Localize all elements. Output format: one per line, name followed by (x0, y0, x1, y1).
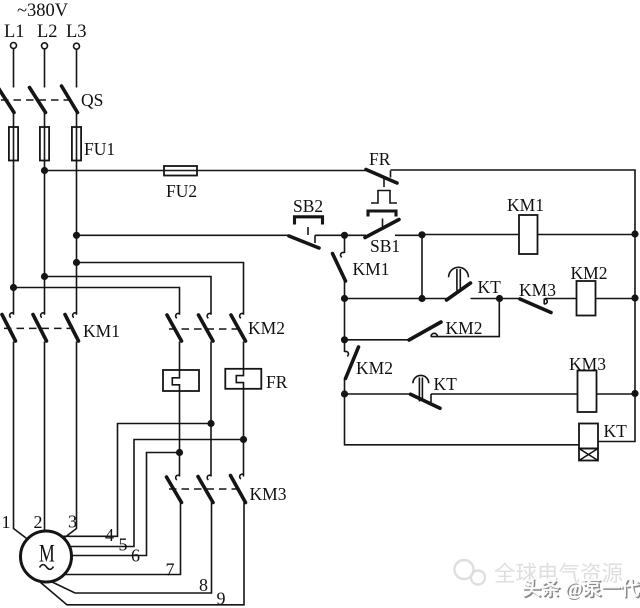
wire feed L2 to KM2 pole 2 (45, 277, 212, 315)
svg-text:KM2: KM2 (248, 318, 285, 338)
svg-text:3: 3 (68, 512, 77, 532)
contact KM2 NO blade row3 (409, 322, 441, 340)
KM3 NC hook (544, 299, 547, 305)
node control tap on L3 (73, 232, 80, 239)
wire rail2 row4 to bottom (345, 394, 580, 445)
pushbutton SB2 cap (295, 217, 323, 223)
node rail row1 (631, 230, 638, 237)
node row2 left (341, 295, 348, 302)
node rail row4 (631, 390, 638, 397)
node wire4 tap (207, 420, 214, 427)
wire SB2 to node A (315, 234, 345, 236)
wire KM3 NC to coil KM2 (545, 298, 577, 300)
node row4 left (341, 390, 348, 397)
wire motor terminal 5 (66, 440, 244, 547)
coil KT (579, 424, 598, 449)
node FU2 tap on L2 (41, 167, 48, 174)
wire KM1 pole1 to motor 1 (14, 342, 29, 540)
svg-text:6: 6 (131, 546, 140, 566)
terminal L3 (74, 43, 80, 49)
watermark logo (455, 560, 486, 585)
wire coil KM3 to rail (597, 393, 636, 395)
svg-text:5: 5 (119, 535, 128, 555)
wire L1 QS to KM1 (13, 113, 15, 315)
wire KM1 pole3 to motor 3 (62, 342, 77, 540)
wire control supply to FR (45, 170, 367, 172)
wire feed L3 to KM2 pole 3 (77, 263, 244, 315)
pushbutton SB2 NC blade (289, 236, 319, 248)
svg-text:KT: KT (434, 374, 458, 394)
wire KM2 pole1 down with FR heater notch (172, 342, 179, 477)
wire motor terminal 4 (60, 424, 211, 537)
contactor KM3 pole 3 (240, 474, 244, 479)
FR contact right stub (390, 171, 392, 178)
svg-text:KM3: KM3 (250, 484, 287, 504)
wire SB1 to node B (395, 234, 422, 236)
FR contact link dash (383, 179, 385, 188)
wire KM3 pole1 to motor 7 (62, 503, 181, 575)
contactor KM1 main pole 1 (10, 313, 14, 318)
svg-text:KM1: KM1 (507, 195, 544, 215)
svg-text:SB1: SB1 (370, 236, 400, 256)
KT delay stems (457, 269, 460, 291)
wire L1 upper (13, 49, 15, 88)
switch QS link dashed (1, 99, 70, 101)
wire row1 to coil KM1 (422, 234, 519, 236)
contact KM1 aux hook (344, 235, 346, 253)
svg-text:L1: L1 (4, 22, 25, 42)
svg-text:SB2: SB2 (293, 196, 323, 216)
switch QS pole 3 blade (62, 86, 78, 113)
wire KM3 pole3 to motor 9 (40, 503, 244, 605)
KT NC delay arc (413, 375, 429, 383)
wire L3 upper (76, 49, 78, 87)
contactor KM3 pole 2 (207, 475, 211, 480)
svg-text:9: 9 (217, 589, 226, 608)
motor M circle (21, 531, 72, 582)
wire row3 right to node C (431, 299, 499, 337)
svg-text:M: M (39, 541, 55, 568)
wire row2 left (345, 298, 448, 300)
coil KM1 (519, 215, 538, 254)
wire row4 left (345, 393, 412, 395)
node KM2 feed B on L2 (41, 273, 48, 280)
svg-text:QS: QS (81, 90, 103, 110)
fuse FU1 pole 3 (72, 127, 81, 161)
KT delay arc (449, 267, 469, 277)
terminal L1 (11, 43, 17, 49)
svg-text:FR: FR (266, 372, 288, 392)
svg-text:KM2: KM2 (446, 318, 483, 338)
contactor KM2 link dashed (169, 328, 238, 330)
svg-text:L2: L2 (37, 22, 58, 42)
contactor KM2 main pole 1 (176, 313, 180, 318)
contact KM3 NC blade (520, 299, 551, 313)
thermal relay FR NC contact blade (366, 170, 397, 184)
wire KM2 pole2 down (210, 342, 212, 477)
wire row2 to row3 on rail2 (344, 299, 346, 340)
svg-text:KM3: KM3 (569, 354, 606, 374)
wire L2 upper (44, 49, 46, 88)
wire KM2 aux to row4 (344, 379, 346, 395)
contactor KM3 pole 1 (176, 475, 180, 480)
wire KM3 pole2 to motor 8 (50, 503, 212, 594)
wire motor terminal 6 (68, 453, 180, 556)
contact KM1 aux blade (333, 254, 346, 282)
thermal relay FR heater box 1 (163, 370, 199, 391)
coil KM2 (577, 281, 596, 316)
node KM2 feed C on L3 (73, 259, 80, 266)
contact KM2 aux hook vertical (344, 340, 346, 352)
wire L3 QS to KM1 (76, 113, 78, 315)
wire coil KM1 to rail (538, 234, 636, 236)
wire L2 QS to KM1 (44, 113, 46, 315)
node KM2 feed A on L1 (10, 284, 17, 291)
svg-text:L3: L3 (66, 22, 87, 42)
wire feed L1 to KM2 pole 1 (14, 288, 180, 315)
svg-text:KT: KT (604, 421, 628, 441)
wire row3 left (345, 339, 410, 341)
svg-text:4: 4 (105, 525, 114, 545)
contact KT NC delayed open blade (411, 394, 441, 408)
svg-text:头条 @泵一代: 头条 @泵一代 (522, 577, 639, 600)
fuse FU2 (164, 166, 197, 176)
fuse FU1 pole 2 (40, 127, 49, 161)
thermal relay FR heater box 2 (225, 369, 261, 389)
SB2 plunger dash (307, 227, 309, 235)
contact KM2 aux blade (346, 347, 359, 379)
KM2 row3 hook bump (431, 333, 438, 336)
coil KM3 (578, 371, 597, 413)
wire KM2 pole3 down with FR heater notch (236, 342, 243, 477)
svg-text:KM1: KM1 (353, 259, 390, 279)
svg-text:1: 1 (2, 512, 11, 532)
svg-text:KM1: KM1 (83, 321, 120, 341)
contactor KM1 main pole 2 (41, 313, 45, 318)
svg-text:FU2: FU2 (166, 181, 197, 201)
wire node A to SB1 (345, 234, 367, 236)
KT NC delay stems (419, 378, 422, 402)
svg-text:KT: KT (478, 277, 502, 297)
svg-text:8: 8 (199, 575, 208, 595)
SB2 right stub (314, 235, 316, 243)
svg-text:2: 2 (34, 512, 43, 532)
wire coil KM2 to rail (596, 298, 636, 300)
SB1 plunger dash (382, 219, 384, 227)
contactor KM1 main pole 3 (73, 313, 77, 318)
svg-text:~380V: ~380V (17, 1, 69, 21)
contactor KM2 main pole 3 (240, 313, 244, 318)
wire KM1 pole2 to motor 2 (44, 342, 46, 534)
contactor KM1 link dashed (4, 327, 70, 329)
pushbutton SB1 NO blade (365, 220, 399, 238)
pushbutton SB1 cap (368, 211, 396, 215)
wire control line L3 to SB2 (77, 234, 290, 236)
svg-text:KM2: KM2 (571, 263, 608, 283)
svg-text:FR: FR (369, 149, 391, 169)
node rail row2 (631, 294, 638, 301)
node row3 left (341, 336, 348, 343)
wire KM1 aux to row2 (344, 281, 346, 299)
coil KT delay box (579, 449, 598, 461)
switch QS pole 2 blade (30, 88, 46, 113)
node row2 at SB1 branch (418, 295, 425, 302)
node wire5 tap (240, 436, 247, 443)
contactor KM2 main pole 2 (207, 313, 211, 318)
fuse FU1 pole 1 (9, 127, 18, 161)
contact KT NO delayed close blade (447, 283, 471, 300)
svg-text:FU1: FU1 (84, 139, 115, 159)
switch QS pole 1 blade (0, 88, 14, 113)
wire FR to right rail and down (391, 170, 636, 442)
svg-text:KM2: KM2 (356, 358, 393, 378)
node C (496, 295, 503, 302)
contactor KM3 link dashed (169, 488, 238, 490)
wire node C to KM3 NC (500, 298, 521, 300)
svg-text:KM3: KM3 (519, 280, 556, 300)
wire KT to node C (471, 298, 500, 300)
node B after SB1 (418, 231, 425, 238)
motor tilde (40, 565, 54, 570)
terminal L2 (42, 43, 48, 49)
wire row4 to coil KM3 (431, 393, 578, 395)
FR release bump (371, 191, 397, 204)
KT NC right stub (430, 394, 432, 402)
svg-text:7: 7 (166, 560, 175, 580)
node wire6 tap (176, 449, 183, 456)
wire node B down to row2 (421, 235, 423, 299)
node A after SB2 (341, 232, 348, 239)
